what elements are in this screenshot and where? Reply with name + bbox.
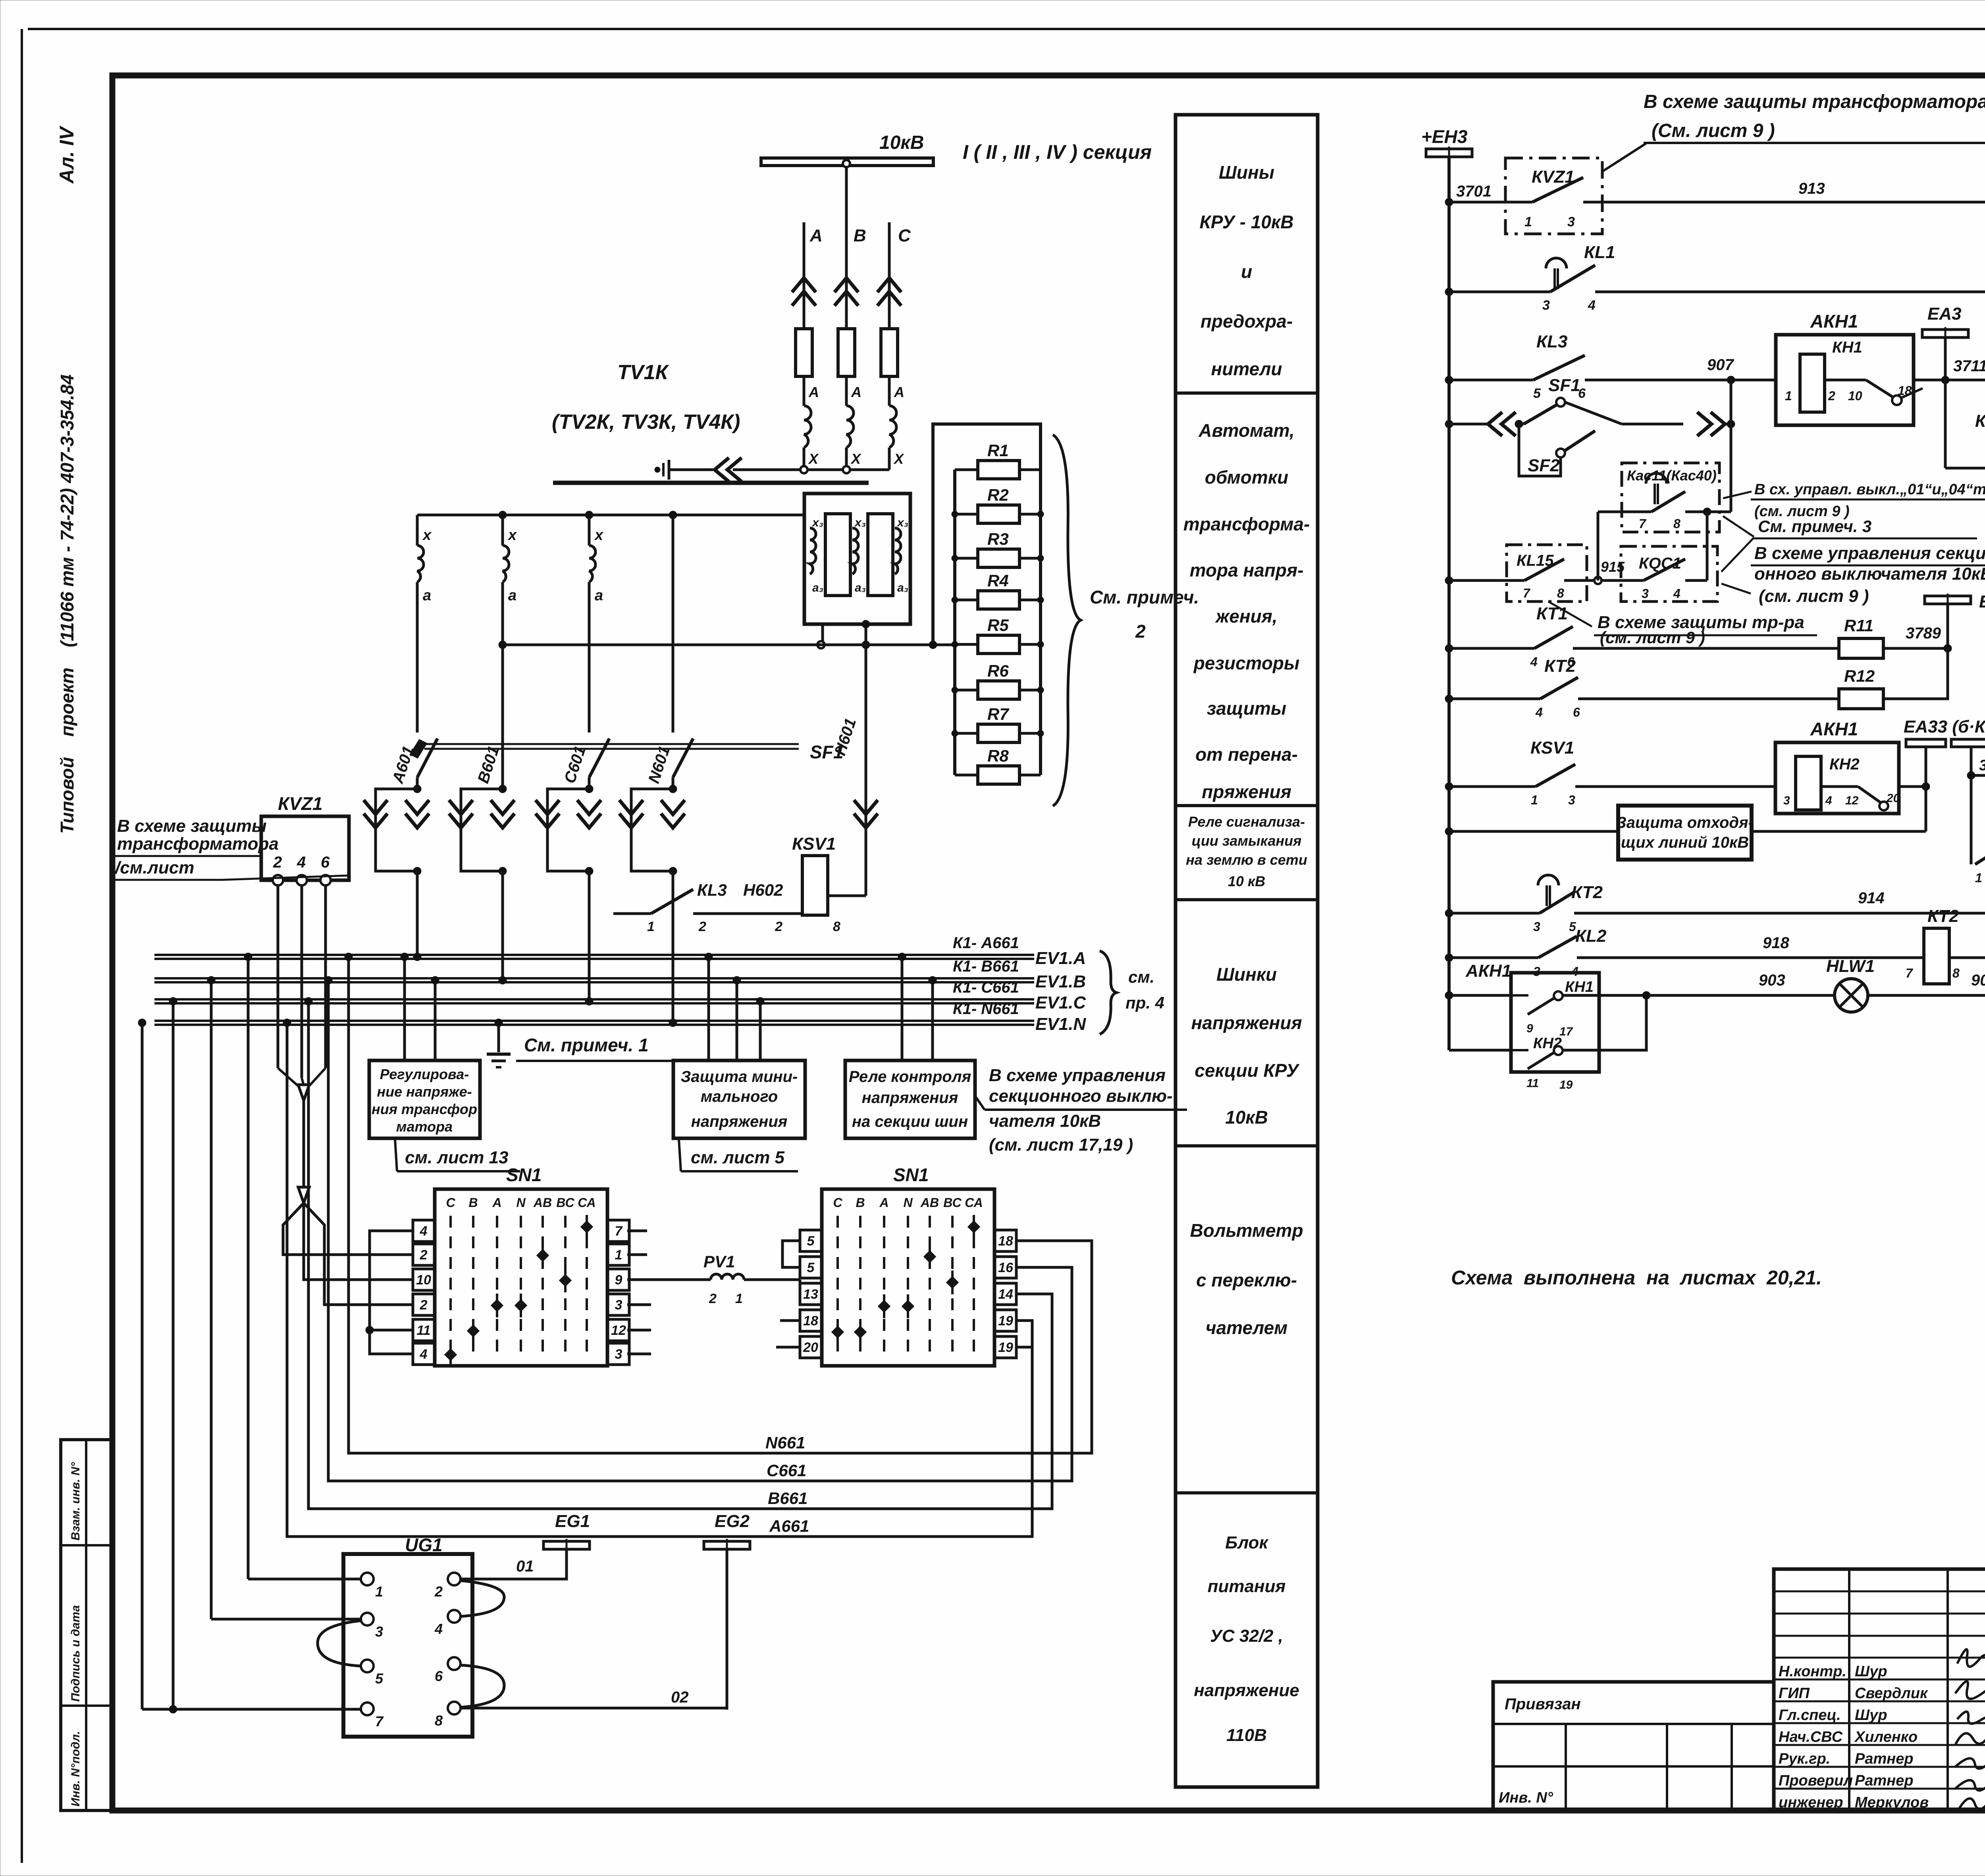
- svg-text:6: 6: [435, 1668, 443, 1684]
- svg-text:Свердлик: Свердлик: [1855, 1685, 1928, 1702]
- svg-text:КРУ - 10кВ: КРУ - 10кВ: [1200, 212, 1294, 232]
- terminal EG1: [543, 1541, 590, 1549]
- wire EHP3 down: [1946, 604, 1949, 648]
- brace see pr 4: [1100, 951, 1116, 1034]
- svg-text:Н602: Н602: [743, 881, 783, 899]
- wire C blade to loop: [588, 777, 591, 789]
- wire KH1 out: [1825, 379, 1866, 382]
- wire row1 left: [1449, 201, 1532, 204]
- wire B drop to bus2: [501, 871, 504, 980]
- node loop bottom N: [669, 867, 677, 875]
- svg-text:3: 3: [1642, 586, 1649, 601]
- svg-text:11: 11: [1526, 1077, 1539, 1090]
- svg-text:С: С: [833, 1195, 842, 1210]
- SN1 dashed column ВС: [564, 1216, 567, 1358]
- KT2 blade row10: [1540, 892, 1574, 913]
- resistor R1: [955, 469, 977, 471]
- wire KL3 H602 row: [613, 912, 651, 915]
- svg-text:16: 16: [998, 1260, 1014, 1275]
- SN1 contact mark 5: [902, 1300, 914, 1312]
- SN1 left tab 11: [413, 1319, 435, 1341]
- svg-text:6: 6: [1573, 705, 1580, 719]
- terminal EA33 bars: [1906, 739, 1946, 747]
- svg-text:3: 3: [615, 1298, 622, 1313]
- wire phase B upper: [845, 222, 848, 329]
- node row7 left: [1445, 695, 1453, 703]
- vertical to regulation box 2: [434, 980, 437, 1060]
- SF1 blade pole C: [589, 738, 609, 777]
- secondary winding coil a: [417, 546, 424, 582]
- SN1 contact mark 7: [444, 1348, 457, 1361]
- svg-text:3: 3: [1533, 920, 1540, 934]
- box voltage control relay: [845, 1060, 975, 1138]
- svg-text:a: a: [423, 587, 431, 604]
- svg-text:SF1: SF1: [810, 742, 843, 762]
- svg-text:4: 4: [420, 1224, 428, 1239]
- arrow down N right: [661, 800, 685, 814]
- svg-text:Шинки: Шинки: [1216, 964, 1277, 985]
- node loop bottom B: [499, 867, 507, 875]
- secondary winding top rail: [417, 514, 804, 517]
- svg-text:5: 5: [1533, 386, 1541, 401]
- merge diagonals to triangle: [278, 1068, 299, 1087]
- resistor bank right rail: [1039, 470, 1042, 775]
- node 907 drop: [1727, 376, 1735, 384]
- svg-text:2: 2: [1828, 389, 1835, 403]
- vertical bus2 tap to UG1 pin3: [210, 980, 213, 1619]
- svg-text:Е НР3: Е НР3: [1979, 592, 1985, 611]
- svg-text:ЕV1.А: ЕV1.А: [1035, 949, 1086, 968]
- middle annotation column box: [1176, 115, 1318, 1787]
- primary winding coil phase A: [804, 406, 811, 447]
- svg-text:напряжения: напряжения: [1191, 1012, 1302, 1033]
- aux box bottom drop H601: [865, 624, 867, 896]
- svg-text:См. примеч.: См. примеч.: [1090, 587, 1199, 607]
- svg-text:R12: R12: [1844, 667, 1875, 685]
- svg-text:R5: R5: [987, 616, 1009, 634]
- SN1 right tab 7: [607, 1220, 629, 1242]
- wire row12b left: [1449, 1049, 1511, 1052]
- brace see note 2: [1053, 435, 1081, 806]
- svg-text:Шур: Шур: [1855, 1707, 1887, 1724]
- KQC1 blade: [1644, 559, 1685, 580]
- svg-text:4: 4: [1530, 655, 1538, 669]
- svg-text:А: А: [894, 384, 904, 400]
- svg-text:КL1: КL1: [1584, 243, 1615, 262]
- svg-text:Проверил: Проверил: [1779, 1772, 1853, 1789]
- wire row4 to drop: [1725, 423, 1731, 426]
- wire C601: [588, 582, 591, 733]
- cable merge triangle 1: [298, 1085, 309, 1101]
- SN1 dashed column С: [449, 1216, 452, 1358]
- wire phase A to X line: [803, 447, 806, 470]
- svg-text:2: 2: [698, 919, 706, 934]
- svg-text:3701: 3701: [1456, 183, 1492, 200]
- svg-text:4: 4: [1673, 586, 1681, 601]
- svg-text:ЕV1.N: ЕV1.N: [1035, 1014, 1086, 1034]
- SN1 contact mark 4: [491, 1299, 503, 1311]
- svg-text:20: 20: [803, 1340, 818, 1355]
- svg-text:ния трансфор: ния трансфор: [372, 1101, 477, 1117]
- resistor bank left rail: [953, 470, 956, 775]
- contact KT2 blade: [1540, 677, 1578, 699]
- node row1 left: [1445, 198, 1453, 206]
- SN1 dashed column N: [907, 1216, 909, 1358]
- svg-text:с переклю-: с переклю-: [1196, 1270, 1297, 1290]
- svg-text:КТ2: КТ2: [1544, 656, 1576, 676]
- svg-text:14: 14: [998, 1287, 1013, 1302]
- wire A601: [416, 582, 419, 733]
- wire N drop to bus4: [672, 871, 675, 1023]
- svg-text:Подпись и дата: Подпись и дата: [69, 1605, 82, 1702]
- svg-text:1: 1: [1785, 389, 1792, 403]
- svg-text:913: 913: [1798, 180, 1825, 197]
- node H601 on 1624 line: [862, 641, 870, 649]
- SN1 right tab 16: [994, 1257, 1016, 1278]
- cable split fan to SN1 tab2b: [304, 1203, 413, 1305]
- relay coil KT2: [1924, 928, 1949, 984]
- node X line phase A: [800, 466, 807, 473]
- SN1 dashed column N: [520, 1216, 522, 1358]
- KH1 contact circle: [1892, 395, 1902, 405]
- vertical to control box 2: [931, 980, 934, 1060]
- contact box KAC11 dash-dot: [1622, 463, 1719, 532]
- svg-text:9: 9: [1526, 1022, 1533, 1035]
- contact KSV1 blade: [1536, 764, 1575, 787]
- arrow down B right: [491, 800, 515, 814]
- node busbar attach: [843, 160, 850, 167]
- vertical bus1 tap to UG1 pin1: [247, 957, 250, 1579]
- svg-text:А: А: [808, 384, 819, 400]
- wire row2 left: [1449, 291, 1550, 293]
- wire row2: [1595, 291, 1985, 293]
- svg-text:+ЕН3: +ЕН3: [1421, 126, 1468, 147]
- SN1 contact mark 6: [831, 1326, 844, 1338]
- KVZ1 wire 2: [277, 885, 279, 1068]
- svg-text:903: 903: [1759, 972, 1785, 989]
- svg-text:1: 1: [615, 1247, 622, 1263]
- split loop A: [376, 789, 417, 871]
- svg-text:матора: матора: [396, 1118, 453, 1135]
- resistor R2: [955, 513, 977, 516]
- KH2 circle b: [1554, 1046, 1563, 1055]
- svg-text:4: 4: [1588, 298, 1596, 313]
- svg-text:3: 3: [615, 1347, 622, 1362]
- wire KH2 out: [1821, 785, 1858, 788]
- aux box bottom drop left: [821, 624, 824, 645]
- svg-text:8: 8: [1952, 966, 1960, 980]
- fuse FC: [881, 329, 898, 376]
- resistor R4: [955, 599, 977, 602]
- svg-text:чателем: чателем: [1206, 1317, 1287, 1338]
- fuse FA: [796, 329, 812, 376]
- SN1 right tab 19: [994, 1310, 1016, 1331]
- svg-text:АКН1: АКН1: [1810, 311, 1858, 332]
- wire KQC1 out: [1685, 579, 1707, 582]
- node KAC11 link: [1703, 508, 1711, 516]
- X common line: [669, 469, 713, 471]
- relay coil KSV1: [802, 856, 828, 915]
- SN1 right tab 12: [607, 1319, 629, 1341]
- aux winding coil c: [895, 528, 901, 574]
- node loop top C: [585, 785, 593, 793]
- wire phase A below fuse: [803, 376, 806, 406]
- wire row4 seg2: [1516, 423, 1524, 426]
- node X line phase B: [843, 466, 850, 473]
- wire KT2 to bus: [1949, 956, 1985, 959]
- UG1 pin 3: [361, 1613, 374, 1625]
- SN1 right tab 19: [994, 1336, 1016, 1358]
- wrap wire N661: [349, 957, 1092, 1453]
- SN1 right tab 18: [994, 1230, 1016, 1251]
- svg-text:и: и: [1241, 261, 1252, 282]
- right SN1 jumper tabs 5-5: [782, 1241, 800, 1267]
- svg-text:С661: С661: [767, 1461, 806, 1480]
- svg-text:Вольтметр: Вольтметр: [1190, 1220, 1303, 1241]
- node row12 left: [1445, 991, 1453, 999]
- svg-text:10 кВ: 10 кВ: [1228, 873, 1265, 889]
- aux inner partition 1: [825, 514, 850, 596]
- svg-text:Рук.гр.: Рук.гр.: [1779, 1751, 1830, 1767]
- svg-text:SN1: SN1: [893, 1165, 929, 1185]
- UG1 jumper 2-4: [461, 1581, 504, 1616]
- switch block SN1 box: [435, 1189, 607, 1366]
- svg-text:5: 5: [375, 1670, 384, 1687]
- svg-text:напряжение: напряжение: [1194, 1681, 1299, 1700]
- KH1 circle b: [1554, 991, 1563, 1000]
- svg-text:Шур: Шур: [1855, 1663, 1887, 1680]
- SN1 right tab 3: [607, 1294, 629, 1315]
- svg-text:(см. лист 9 ): (см. лист 9 ): [1600, 628, 1705, 647]
- node rail N: [669, 511, 677, 519]
- wire EA33 right leg: [1970, 747, 1973, 775]
- node resistor bank on 1624 line: [929, 641, 937, 649]
- wire row5 left: [1449, 579, 1524, 582]
- resistor R8: [955, 774, 977, 777]
- vertical to minvolt box 2: [736, 980, 738, 1060]
- node B601 on 1624 line: [499, 641, 507, 649]
- wire A blade to loop: [416, 777, 419, 789]
- svg-text:1: 1: [1524, 214, 1532, 229]
- wire row4 mid: [1622, 423, 1683, 426]
- node EA33 drop left: [1922, 783, 1930, 791]
- SN1 dashed column С: [836, 1216, 839, 1358]
- vertical to regulation box 1: [403, 957, 406, 1060]
- svg-text:SF2: SF2: [1528, 456, 1560, 475]
- svg-text:СА: СА: [965, 1195, 983, 1210]
- svg-text:на землю в сети: на землю в сети: [1186, 852, 1307, 868]
- wire N blade to loop: [672, 777, 675, 789]
- SN1 left tab 10: [413, 1269, 435, 1290]
- arrow up phase A: [792, 278, 816, 292]
- terminal EG2: [704, 1541, 750, 1549]
- arrow down B left: [449, 800, 473, 814]
- right SN1 left tab stubs: [780, 1319, 800, 1322]
- wire EA33 left leg: [1925, 747, 1927, 787]
- secondary winding coil c: [589, 546, 595, 582]
- wire row6 left: [1449, 647, 1534, 650]
- relay contact box KVZ1 dash-dot: [1505, 158, 1602, 234]
- svg-text:12: 12: [611, 1323, 626, 1338]
- underline see note 1: [516, 1060, 754, 1062]
- node row4 left: [1445, 420, 1453, 428]
- svg-text:Реле сигнализа-: Реле сигнализа-: [1188, 814, 1305, 830]
- KL1 blade: [1550, 265, 1595, 292]
- SN1 left tab 4: [413, 1343, 435, 1365]
- secondary winding coil b: [503, 546, 509, 582]
- svg-text:В схеме защиты: В схеме защиты: [117, 816, 267, 836]
- svg-text:Взам. инв. N°: Взам. инв. N°: [69, 1462, 82, 1541]
- primary winding coil phase C: [889, 406, 896, 447]
- svg-text:7: 7: [1523, 586, 1531, 600]
- node row8 left: [1445, 783, 1453, 791]
- svg-text:См. примеч. 1: См. примеч. 1: [524, 1035, 649, 1055]
- node row11 left: [1445, 954, 1453, 962]
- node loop bottom A: [413, 867, 421, 875]
- vertical to control box 1: [901, 957, 904, 1060]
- svg-text:чателя 10кВ: чателя 10кВ: [989, 1111, 1101, 1131]
- wire C drop to bus3: [588, 871, 591, 1001]
- svg-text:6: 6: [321, 854, 330, 871]
- switch SF1 bus double line: [424, 743, 799, 745]
- wire to UG1 pin3: [211, 1618, 360, 1621]
- svg-text:А661: А661: [769, 1517, 809, 1535]
- arrow down C left: [536, 800, 559, 814]
- svg-text:ГИП: ГИП: [1779, 1685, 1810, 1702]
- svg-text:Защита мини-: Защита мини-: [681, 1068, 798, 1085]
- privyazan column dividers: [1565, 1724, 1567, 1810]
- vertical 915 to KAC11 row: [1597, 512, 1600, 580]
- svg-text:R7: R7: [987, 705, 1009, 723]
- svg-text:900: 900: [1971, 972, 1985, 989]
- svg-text:1: 1: [647, 919, 655, 934]
- svg-text:(см. лист 9 ): (см. лист 9 ): [1759, 586, 1869, 606]
- SN1 contact mark 3: [559, 1274, 571, 1286]
- contact SF1 blade: [1524, 405, 1557, 424]
- svg-text:3789: 3789: [1906, 625, 1941, 642]
- wire 3735 to KL2: [1971, 774, 1985, 777]
- wire KH1 entry: [1511, 994, 1528, 997]
- UG1 pin 7: [361, 1702, 374, 1715]
- svg-text:R11: R11: [1844, 616, 1873, 635]
- svg-text:напряжения: напряжения: [862, 1089, 958, 1107]
- UG1 pin 1: [361, 1573, 374, 1585]
- svg-text:СА: СА: [578, 1195, 595, 1210]
- left SN1 jumper rail tabs 4-4: [370, 1231, 413, 1354]
- KAC11 blade: [1652, 492, 1685, 512]
- SN1 contact mark 5: [515, 1299, 527, 1311]
- node row3 left: [1445, 376, 1453, 384]
- svg-text:АВ: АВ: [533, 1195, 552, 1210]
- svg-text:Схема выполнена на листах: Схема выполнена на листах 20,21.: [1451, 1267, 1822, 1289]
- svg-text:Кас11(Кас40): Кас11(Кас40): [1627, 467, 1717, 484]
- wrap wire C661: [328, 980, 1072, 1481]
- wrap wire A661: [287, 1023, 1032, 1537]
- privyazan row divider: [1493, 1723, 1774, 1725]
- left stamp column inner divider: [85, 1440, 87, 1810]
- auxiliary winding box: [804, 494, 910, 624]
- KH1 contact blade: [1866, 380, 1893, 397]
- svg-text:инженер: инженер: [1779, 1794, 1843, 1811]
- svg-text:R6: R6: [987, 661, 1009, 680]
- svg-text:11: 11: [416, 1323, 430, 1338]
- voltage bus 3 double line: [154, 998, 1034, 1001]
- left SN1 tab11 wire: [370, 1329, 413, 1332]
- wire KT1 row left: [1945, 467, 1985, 470]
- wire 02 right segment from UG1 pin8 to EG2: [461, 1707, 727, 1710]
- svg-text:Шины: Шины: [1219, 162, 1274, 183]
- svg-text:7: 7: [375, 1713, 384, 1729]
- wire AKH1 to EA3: [1914, 379, 1985, 382]
- svg-text:ции замыкания: ции замыкания: [1192, 833, 1302, 849]
- signature table column lines: [1848, 1569, 1850, 1810]
- svg-text:a₃: a₃: [897, 581, 908, 594]
- wire phase C below fuse: [888, 376, 891, 406]
- fuse FB: [838, 329, 855, 376]
- svg-text:2: 2: [420, 1247, 428, 1263]
- KL4 contact blade: [1975, 843, 1985, 864]
- primary winding coil phase B: [846, 406, 854, 447]
- KH2 contact blade b: [1528, 1052, 1555, 1069]
- svg-text:1: 1: [1975, 871, 1982, 885]
- node open junction on 1624 line: [817, 641, 825, 648]
- svg-text:Ал. IV: Ал. IV: [56, 125, 78, 184]
- wire busbar drop B: [845, 166, 848, 222]
- wire KH2 out: [1563, 995, 1646, 1050]
- svg-text:см. лист 13: см. лист 13: [405, 1148, 508, 1167]
- wire B blade to loop: [501, 749, 504, 789]
- svg-text:9: 9: [615, 1273, 622, 1288]
- svg-text:КVZ1: КVZ1: [278, 793, 323, 814]
- svg-text:3735: 3735: [1979, 757, 1985, 774]
- relay assembly box AKH1: [1776, 335, 1914, 425]
- svg-text:ТV1К: ТV1К: [617, 361, 669, 384]
- wire H602 to KSV1: [693, 912, 803, 915]
- relay assembly box AKH1 bottom: [1511, 973, 1599, 1072]
- svg-text:Н.контр.: Н.контр.: [1779, 1663, 1846, 1680]
- aux inner partition 2: [868, 514, 893, 596]
- SN1 right tab 9: [607, 1269, 629, 1290]
- svg-text:907: 907: [1707, 356, 1734, 374]
- svg-text:См. примеч. 3: См. примеч. 3: [1758, 517, 1871, 536]
- svg-text:x₃: x₃: [854, 516, 866, 529]
- node row2 left: [1445, 288, 1453, 296]
- svg-text:К1- С661: К1- С661: [953, 979, 1019, 996]
- svg-text:обмотки: обмотки: [1205, 467, 1288, 488]
- svg-text:4: 4: [434, 1621, 443, 1637]
- contact KL3 blade: [1533, 355, 1585, 380]
- svg-text:8: 8: [833, 919, 840, 934]
- svg-text:x₃: x₃: [896, 516, 908, 529]
- wire row3 left: [1449, 379, 1533, 382]
- SN1 left tab 2: [413, 1294, 435, 1315]
- svg-text:секции КРУ: секции КРУ: [1195, 1060, 1300, 1081]
- node 3789: [1944, 644, 1952, 652]
- svg-text:4: 4: [1535, 705, 1543, 719]
- svg-text:КТ1: КТ1: [1975, 411, 1985, 431]
- svg-text:от перена-: от перена-: [1195, 744, 1298, 765]
- svg-text:Типовой проект (11066 тм: Типовой проект (11066 тм - 74-22) 407-3-…: [57, 374, 77, 834]
- wire A drop to bus1: [416, 871, 419, 957]
- svg-text:02: 02: [671, 1689, 689, 1706]
- voltage bus 4 double line: [154, 1020, 1034, 1022]
- SN1 dashed column В: [472, 1216, 474, 1358]
- svg-text:Автомат,: Автомат,: [1198, 420, 1294, 441]
- node rail C: [585, 511, 593, 519]
- SN1 contact mark 2: [536, 1249, 549, 1261]
- wire R12 up to 3789: [1883, 648, 1948, 699]
- resistor R7: [955, 732, 977, 735]
